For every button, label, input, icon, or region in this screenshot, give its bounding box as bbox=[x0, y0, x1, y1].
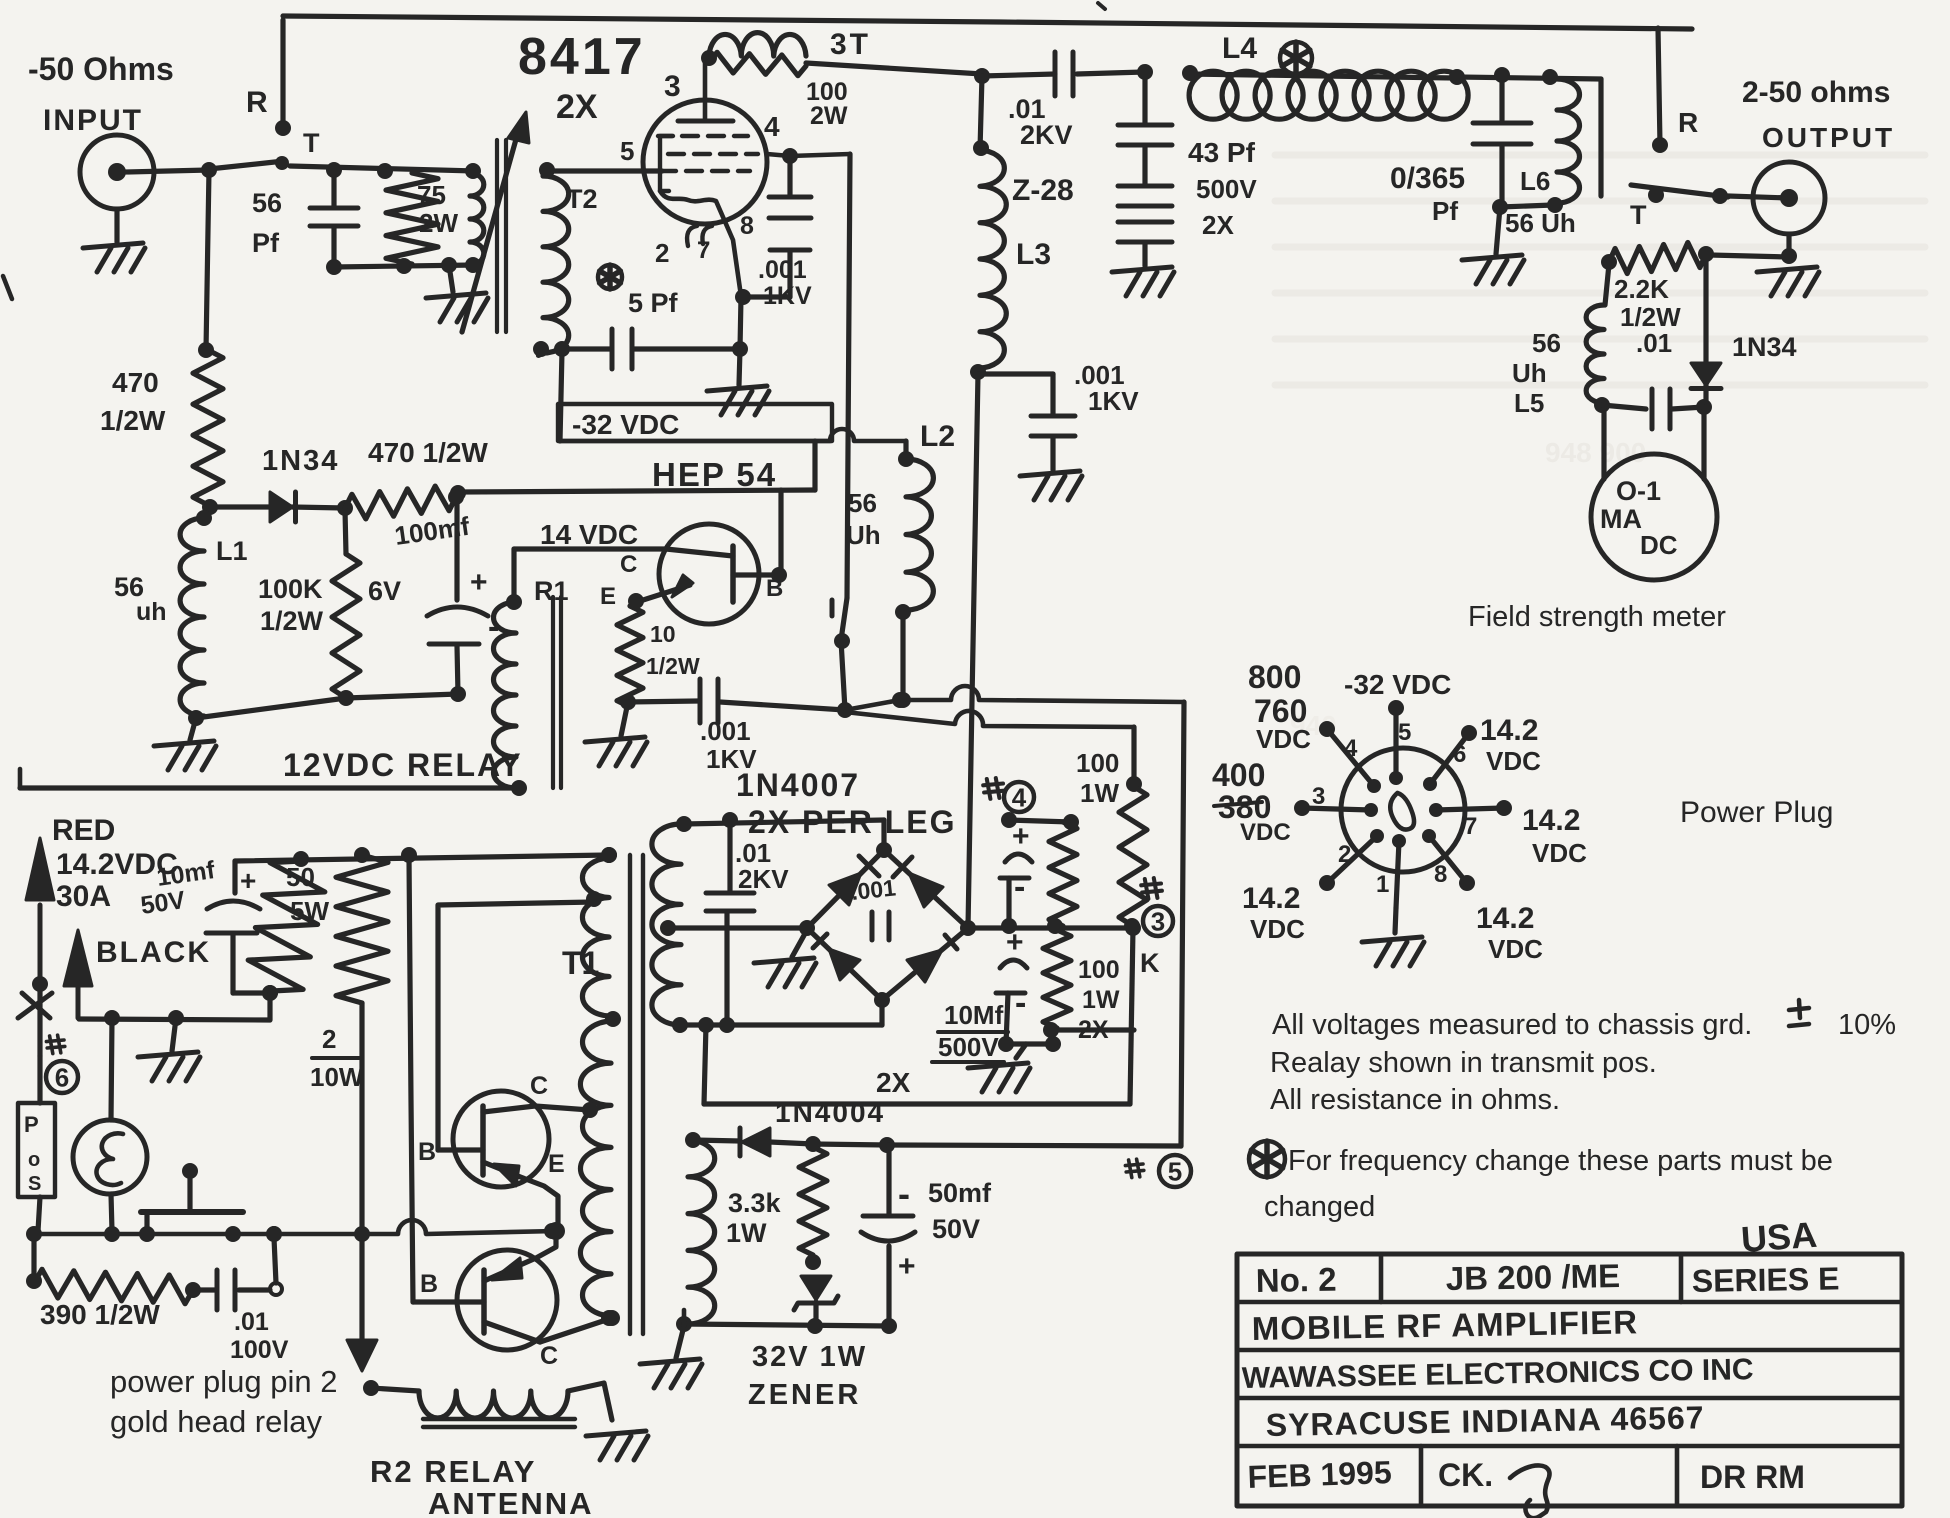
label C (Q1) bbox=[530, 1072, 548, 1100]
wire switch to output bbox=[1728, 196, 1789, 198]
plug pin labels bbox=[1312, 719, 1477, 898]
svg-text:ANTENNA: ANTENNA bbox=[428, 1486, 594, 1518]
svg-text:VDC: VDC bbox=[1256, 724, 1311, 754]
page edge mark bbox=[3, 276, 12, 299]
svg-text:C: C bbox=[620, 551, 637, 578]
wire 2-10W down bbox=[354, 1003, 370, 1242]
svg-text:75: 75 bbox=[417, 180, 446, 210]
ground at L1 tank bbox=[154, 718, 216, 770]
node pin3 top bbox=[701, 50, 717, 66]
wire HV top bbox=[684, 812, 884, 850]
svg-text:56: 56 bbox=[848, 488, 877, 518]
svg-text:100mf: 100mf bbox=[393, 511, 472, 551]
label 100K 1/2W bbox=[258, 574, 324, 636]
transformer T1 primary lower bbox=[580, 1021, 617, 1326]
circled 4 marker bbox=[983, 778, 1034, 812]
svg-text:R2 RELAY: R2 RELAY bbox=[370, 1454, 536, 1489]
svg-text:-: - bbox=[488, 608, 499, 646]
wire node4 bbox=[1001, 812, 1079, 830]
svg-text:BLACK: BLACK bbox=[96, 936, 211, 969]
svg-text:1W: 1W bbox=[1082, 986, 1120, 1014]
svg-text:2KV: 2KV bbox=[738, 864, 789, 894]
label B (Q1) bbox=[418, 1138, 436, 1166]
svg-text:1/2W: 1/2W bbox=[646, 653, 700, 679]
label E (HEP54) bbox=[600, 583, 616, 610]
svg-text:1N4007: 1N4007 bbox=[736, 767, 860, 803]
svg-text:470: 470 bbox=[112, 367, 159, 398]
wire bus B bbox=[845, 711, 1134, 784]
svg-text:1N34: 1N34 bbox=[1732, 332, 1797, 362]
svg-text:MA: MA bbox=[1600, 504, 1642, 534]
svg-text:14.2: 14.2 bbox=[1242, 882, 1300, 915]
stray mark top bbox=[1098, 3, 1105, 9]
ground at input tank bbox=[426, 265, 488, 322]
node R (input relay contact) bbox=[275, 20, 291, 136]
label 1N34 (bias) bbox=[262, 445, 339, 477]
wire main 14V bus bbox=[235, 847, 617, 867]
svg-text:1/2W: 1/2W bbox=[260, 606, 324, 636]
note relay bbox=[1270, 1047, 1657, 1079]
relay contact stub bbox=[830, 600, 835, 616]
plug pin stems bbox=[1294, 700, 1512, 908]
capacitor .001 (bridge) bbox=[872, 912, 889, 940]
wire T2 to tube pin5 bbox=[547, 168, 662, 173]
wire L4 out bbox=[1457, 77, 1601, 79]
label Field strength meter bbox=[1468, 601, 1726, 633]
wire Q1 base feedback bbox=[438, 902, 594, 1150]
svg-text:B: B bbox=[766, 575, 783, 602]
svg-text:800: 800 bbox=[1248, 659, 1301, 695]
label .001 (bridge) bbox=[850, 874, 897, 905]
ground at emitter junction bbox=[585, 702, 647, 766]
svg-text:8417: 8417 bbox=[518, 28, 646, 86]
svg-text:6: 6 bbox=[1453, 741, 1466, 768]
svg-text:500V: 500V bbox=[938, 1032, 999, 1062]
svg-text:0/365: 0/365 bbox=[1390, 162, 1465, 195]
transformer T1 primary upper bbox=[582, 847, 621, 1027]
plug pins bbox=[1364, 771, 1443, 848]
label 2-50 ohms bbox=[1742, 76, 1890, 109]
label L1 bbox=[216, 536, 248, 566]
label 100 2W bbox=[806, 78, 848, 130]
title MOBILE RF AMPLIFIER bbox=[1251, 1303, 1638, 1347]
svg-text:ZENER: ZENER bbox=[748, 1379, 861, 1411]
transistor Q1 driver bbox=[438, 1091, 598, 1228]
label pin 7 bbox=[697, 237, 710, 264]
svg-text:JB 200 /ME: JB 200 /ME bbox=[1445, 1257, 1620, 1297]
label .01 2KV (HV) bbox=[735, 838, 789, 894]
svg-text:500V: 500V bbox=[1196, 174, 1257, 204]
svg-text:4: 4 bbox=[1012, 782, 1027, 812]
svg-text:C: C bbox=[530, 1072, 548, 1100]
svg-text:T2: T2 bbox=[566, 184, 598, 214]
svg-text:100V: 100V bbox=[230, 1336, 289, 1364]
wire bottom of input tank bbox=[334, 257, 481, 274]
psu inner box bbox=[704, 928, 1133, 1104]
ground at BLACK bus bbox=[104, 1010, 200, 1081]
svg-text:3.3k: 3.3k bbox=[728, 1188, 782, 1218]
label HEP 54 bbox=[652, 456, 777, 493]
wire plate bus bbox=[806, 63, 990, 84]
zener diode 32V bbox=[794, 1276, 838, 1334]
wire 14V bus down to Q2 base bbox=[409, 857, 413, 1302]
wire -32VDC bus bbox=[560, 429, 914, 467]
svg-text:1KV: 1KV bbox=[1088, 386, 1139, 416]
svg-text:INPUT: INPUT bbox=[43, 104, 143, 137]
svg-text:HEP 54: HEP 54 bbox=[652, 456, 777, 493]
svg-text:R1: R1 bbox=[534, 576, 569, 606]
wire bias bottom bbox=[196, 694, 458, 718]
label 5 Pf bbox=[628, 288, 679, 318]
svg-text:R: R bbox=[1678, 107, 1698, 138]
svg-text:SERIES E: SERIES E bbox=[1691, 1260, 1839, 1299]
svg-text:50mf: 50mf bbox=[928, 1178, 992, 1208]
wire top bus bbox=[283, 16, 1692, 29]
svg-text:Realay shown in transmit pos.: Realay shown in transmit pos. bbox=[1270, 1047, 1657, 1079]
capacitor .01 2KV plate blocking bbox=[1055, 52, 1198, 96]
svg-text:o: o bbox=[28, 1149, 40, 1171]
svg-text:L3: L3 bbox=[1016, 238, 1051, 271]
svg-text:T: T bbox=[1630, 200, 1647, 230]
wire pin4 down (relay arm) bbox=[847, 154, 850, 598]
label 0-1 MA DC bbox=[1600, 476, 1678, 560]
label 14 VDC bbox=[540, 519, 638, 550]
label 2 10W bbox=[310, 1024, 364, 1092]
wire L3 bottom to bridge bbox=[968, 374, 978, 928]
label 14.2 VDC (pin2) bbox=[1242, 882, 1305, 944]
svg-text:+: + bbox=[470, 566, 488, 599]
label ANTENNA bbox=[428, 1486, 594, 1518]
label C (Q2) bbox=[540, 1342, 558, 1370]
svg-text:All voltages measured to chass: All voltages measured to chassis grd. bbox=[1272, 1009, 1752, 1041]
svg-text:For frequency change these par: For frequency change these parts must be bbox=[1288, 1145, 1833, 1177]
resistor bleeder upper bbox=[1047, 822, 1077, 934]
svg-text:Field strength meter: Field strength meter bbox=[1468, 601, 1726, 633]
capacitor .01 2KV (HV) bbox=[706, 820, 754, 1033]
svg-text:14.2: 14.2 bbox=[1522, 804, 1580, 837]
wire HV bottom bbox=[680, 1002, 882, 1033]
title block table bbox=[1237, 1254, 1902, 1506]
arrow RED lead bbox=[26, 838, 54, 992]
capacitor 10mf 50V bbox=[206, 865, 278, 1001]
svg-text:2W: 2W bbox=[810, 102, 848, 130]
label .001 1KV (L3) bbox=[1074, 360, 1139, 416]
svg-text:5: 5 bbox=[1398, 719, 1411, 746]
svg-text:O-1: O-1 bbox=[1616, 476, 1661, 506]
resistor 470 1/2W horizontal bbox=[345, 486, 464, 519]
svg-text:-: - bbox=[1015, 984, 1026, 1022]
meter M1 0-1 MA DC bbox=[1591, 407, 1717, 580]
transformer T1 LV secondary bbox=[676, 1132, 715, 1332]
inductor L2 bbox=[895, 459, 933, 620]
ground at output bbox=[1710, 234, 1819, 296]
plug P rectangle bbox=[18, 1056, 55, 1231]
svg-text:56: 56 bbox=[1532, 328, 1561, 358]
label 2.2K 1/2W bbox=[1614, 274, 1681, 332]
svg-text:5: 5 bbox=[1168, 1156, 1182, 1186]
label pin 5 bbox=[620, 136, 634, 166]
arrow BLACK lead bbox=[64, 930, 92, 1018]
svg-text:OUTPUT: OUTPUT bbox=[1762, 122, 1895, 153]
label OUTPUT bbox=[1762, 122, 1895, 153]
title DR RM bbox=[1700, 1459, 1805, 1495]
svg-text:2: 2 bbox=[655, 238, 669, 268]
svg-text:DC: DC bbox=[1640, 530, 1678, 560]
label RED 14.2VDC 30A bbox=[52, 814, 178, 913]
label L4 bbox=[1222, 32, 1257, 65]
svg-text:10W: 10W bbox=[310, 1062, 364, 1092]
svg-text:Z-28: Z-28 bbox=[1012, 174, 1074, 207]
label 14.2 VDC (pin8) bbox=[1476, 902, 1543, 964]
relay arm to bus bbox=[834, 598, 853, 718]
wire L2 bottom bbox=[895, 612, 911, 708]
svg-text:.01: .01 bbox=[1636, 328, 1672, 358]
svg-text:No. 2: No. 2 bbox=[1255, 1261, 1336, 1299]
ground at LV winding bbox=[640, 1310, 702, 1388]
label 1N34 (detector) bbox=[1732, 332, 1797, 362]
label 32V 1W ZENER bbox=[748, 1341, 867, 1411]
tube filament bbox=[687, 226, 712, 246]
label 43 Pf 500V 2X bbox=[1188, 137, 1257, 240]
svg-text:T: T bbox=[303, 128, 320, 158]
label .01 100V bbox=[230, 1308, 289, 1364]
label 1N4007 2X PER LEG bbox=[736, 767, 957, 840]
label T (output) bbox=[1630, 200, 1647, 230]
svg-text:Pf: Pf bbox=[1432, 196, 1458, 226]
note changed bbox=[1264, 1191, 1375, 1223]
wire bottom bus bbox=[26, 1220, 560, 1242]
label 10 1/2W bbox=[646, 621, 700, 679]
svg-text:6V: 6V bbox=[368, 576, 401, 606]
label 14.2 VDC (pin6) bbox=[1480, 714, 1541, 776]
label T1 bbox=[562, 945, 599, 981]
svg-text:+: + bbox=[1006, 926, 1024, 959]
svg-text:-50 Ohms: -50 Ohms bbox=[28, 51, 174, 87]
svg-text:-32 VDC: -32 VDC bbox=[572, 409, 679, 440]
svg-text:Uh: Uh bbox=[846, 520, 881, 550]
label E (Q1) bbox=[548, 1150, 565, 1178]
capacitor 43Pf 500V 2X stack bbox=[1112, 74, 1174, 296]
transformer T1 HV secondary bbox=[652, 816, 692, 1033]
label L3 bbox=[1016, 238, 1051, 271]
svg-text:WAWASSEE ELECTRONICS CO INC: WAWASSEE ELECTRONICS CO INC bbox=[1242, 1353, 1754, 1395]
circled 3 marker bbox=[1141, 878, 1173, 936]
svg-text:2X: 2X bbox=[556, 88, 598, 126]
title SYRACUSE INDIANA 46567 bbox=[1265, 1399, 1704, 1443]
svg-text:50V: 50V bbox=[932, 1214, 980, 1244]
svg-text:MOBILE RF AMPLIFIER: MOBILE RF AMPLIFIER bbox=[1251, 1303, 1638, 1347]
capacitor 10Mf 500V upper bbox=[1000, 820, 1032, 934]
label .01 2KV bbox=[1008, 94, 1073, 150]
switch S1a blade (input T/R) bbox=[209, 156, 289, 170]
label 470 1/2W (horiz) bbox=[368, 437, 488, 468]
svg-text:2-50 ohms: 2-50 ohms bbox=[1742, 76, 1890, 109]
wire T contact to T2 bbox=[290, 162, 481, 179]
label -32VDC (plug) bbox=[1344, 669, 1451, 700]
svg-text:L5: L5 bbox=[1514, 388, 1544, 418]
tube grid bracket bbox=[660, 136, 673, 191]
ground at input bbox=[83, 209, 145, 272]
svg-text:L2: L2 bbox=[920, 420, 955, 453]
svg-text:2: 2 bbox=[1338, 841, 1351, 868]
svg-text:VDC: VDC bbox=[1250, 914, 1305, 944]
svg-text:10: 10 bbox=[650, 621, 676, 647]
label BLACK bbox=[96, 936, 211, 969]
label 0/365 Pf bbox=[1390, 162, 1465, 226]
label R1 bbox=[534, 576, 569, 606]
wire to output switch bbox=[1598, 79, 1603, 196]
wire T2 bottom to -32VDC box bbox=[560, 351, 562, 441]
svg-text:7: 7 bbox=[1464, 813, 1477, 840]
connector J1 input bbox=[80, 135, 154, 209]
connector J2 output bbox=[1753, 162, 1825, 234]
push switch bbox=[141, 1163, 243, 1232]
bridge diode D3 bbox=[813, 934, 860, 980]
label 1N4004 bbox=[775, 1097, 885, 1128]
label 3T bbox=[830, 28, 871, 61]
label R2 RELAY bbox=[370, 1454, 536, 1489]
svg-text:4: 4 bbox=[764, 111, 780, 142]
svg-text:+: + bbox=[898, 1250, 916, 1283]
svg-text:-: - bbox=[1014, 868, 1025, 906]
svg-text:L4: L4 bbox=[1222, 32, 1257, 65]
bridge diode D2 bbox=[893, 857, 943, 907]
wire filter mid bbox=[968, 920, 1141, 936]
label 400 380 VDC bbox=[1212, 757, 1291, 846]
svg-text:12VDC RELAY: 12VDC RELAY bbox=[283, 747, 523, 783]
resistor 470 1/2W vertical bbox=[193, 350, 223, 505]
bridge diode D1 bbox=[829, 856, 879, 905]
svg-text:P: P bbox=[24, 1112, 39, 1137]
T2 tuning arrow bbox=[462, 112, 529, 332]
svg-text:+: + bbox=[240, 865, 256, 896]
inductor L6 bbox=[1547, 79, 1580, 213]
wire box to B bbox=[812, 441, 817, 490]
screen bypass caps .001 1KV bbox=[735, 158, 811, 305]
resistor 2.2K 1/2W bbox=[1601, 243, 1714, 274]
svg-text:30A: 30A bbox=[56, 880, 111, 913]
label 56 uh (L1) bbox=[114, 572, 167, 626]
wire input to switch bbox=[126, 162, 217, 178]
resistor 3.3k 1W bbox=[799, 1147, 827, 1270]
svg-text:100K: 100K bbox=[258, 574, 323, 604]
capacitor .001 1KV (L3 bottom) bbox=[978, 374, 1082, 500]
arrow to power plug pin2 bbox=[347, 1234, 377, 1371]
label 10mf 50V bbox=[139, 856, 217, 920]
svg-text:14.2: 14.2 bbox=[1480, 714, 1538, 747]
wire bus A bbox=[628, 679, 1184, 723]
fuse X bbox=[18, 984, 52, 1056]
svg-text:8: 8 bbox=[1434, 861, 1447, 888]
svg-text:2KV: 2KV bbox=[1020, 120, 1073, 150]
label C (HEP54) bbox=[620, 551, 637, 578]
label L2 bbox=[920, 420, 955, 453]
label 10Mf 500V 2X bbox=[876, 1000, 1008, 1098]
svg-text:DR RM: DR RM bbox=[1700, 1459, 1805, 1495]
label pin 3 bbox=[664, 70, 681, 103]
svg-text:14 VDC: 14 VDC bbox=[540, 519, 638, 550]
label 56 Pf bbox=[252, 188, 282, 258]
inductor L3 bbox=[970, 76, 1006, 380]
svg-text:1/2W: 1/2W bbox=[100, 405, 166, 436]
svg-text:3: 3 bbox=[1151, 906, 1165, 936]
bridge rectifier diamond bbox=[799, 842, 976, 1008]
svg-text:2W: 2W bbox=[419, 208, 458, 238]
svg-text:1W: 1W bbox=[1080, 778, 1119, 808]
title SERIES E bbox=[1691, 1260, 1839, 1299]
title JB 200/ME bbox=[1445, 1257, 1620, 1297]
wire bus corner to cap bbox=[232, 861, 237, 893]
label pin 4 bbox=[764, 111, 780, 142]
svg-text:3: 3 bbox=[1312, 783, 1325, 810]
label 3.3k 1W bbox=[726, 1188, 782, 1248]
label L6 bbox=[1520, 166, 1550, 196]
diode 1N34 detector bbox=[1691, 256, 1721, 415]
svg-text:1KV: 1KV bbox=[763, 282, 812, 310]
diode 1N4004 bbox=[693, 1128, 821, 1156]
transformer T2 secondary bbox=[539, 162, 569, 353]
resistor 100 1W lower bbox=[1043, 930, 1071, 1038]
title CK signature bbox=[1438, 1457, 1549, 1518]
svg-text:All resistance in ohms.: All resistance in ohms. bbox=[1270, 1084, 1560, 1116]
svg-text:VDC: VDC bbox=[1532, 838, 1587, 868]
resistor 100 2W suppressor bbox=[709, 52, 806, 75]
svg-text:43 Pf: 43 Pf bbox=[1188, 137, 1256, 168]
label 8417 bbox=[518, 28, 646, 86]
label 14.2 VDC (pin7) bbox=[1522, 804, 1587, 868]
wire zener bottom bbox=[684, 1324, 889, 1326]
bridge diode D4 bbox=[907, 935, 957, 982]
svg-text:14.2: 14.2 bbox=[1476, 902, 1534, 935]
svg-text:.001: .001 bbox=[700, 716, 751, 746]
resistor 2 10W bbox=[336, 855, 388, 1003]
svg-text:5W: 5W bbox=[290, 896, 329, 926]
capacitor 56Pf bbox=[310, 170, 358, 275]
svg-text:948 900: 948 900 bbox=[1545, 437, 1646, 468]
title WAWASSEE ELECTRONICS CO INC bbox=[1242, 1353, 1754, 1395]
note voltages bbox=[1272, 1000, 1896, 1041]
svg-text:32V 1W: 32V 1W bbox=[752, 1341, 867, 1373]
svg-text:VDC: VDC bbox=[1488, 934, 1543, 964]
label Z-28 bbox=[1012, 174, 1074, 207]
wire input to 470 bbox=[198, 170, 214, 358]
node 470 bottom bbox=[202, 499, 218, 515]
svg-text:uh: uh bbox=[136, 598, 167, 626]
wire pin8 to ground bbox=[707, 297, 769, 415]
label power plug pin 2 bbox=[110, 1364, 338, 1399]
resistor 75 2W bbox=[386, 173, 438, 264]
svg-text:1N34: 1N34 bbox=[262, 445, 339, 477]
label K bbox=[1140, 948, 1160, 978]
plug keyway bbox=[1386, 790, 1417, 832]
sun mark note bbox=[1249, 1141, 1285, 1177]
label 50 5W bbox=[286, 862, 329, 926]
svg-text:100: 100 bbox=[1078, 956, 1120, 984]
wire 14VDC bbox=[506, 549, 666, 610]
T1 core bbox=[630, 855, 643, 1334]
svg-text:VDC: VDC bbox=[1486, 746, 1541, 776]
resistor 390 1/2W bbox=[34, 1269, 201, 1303]
relay R2 antenna coil bbox=[363, 1380, 612, 1420]
label Power Plug bbox=[1680, 796, 1833, 829]
inductor L4 bbox=[1189, 67, 1558, 119]
circled 5 marker bbox=[1125, 1155, 1191, 1187]
label 470 1/2W (vert) bbox=[100, 367, 166, 436]
relay R1 coil bbox=[494, 602, 527, 796]
label 56 Uh (L6) bbox=[1505, 208, 1576, 238]
suppressor coil 3T bbox=[709, 33, 806, 56]
wire relay bottom bus bbox=[20, 769, 519, 788]
